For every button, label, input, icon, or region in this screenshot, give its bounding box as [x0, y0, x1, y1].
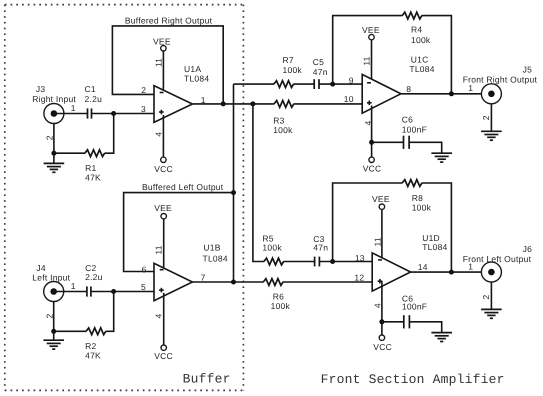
svg-text:C1: C1 [85, 84, 96, 94]
VCC terminal below U1D [373, 335, 392, 352]
node U1B output junction [231, 280, 236, 285]
svg-text:Buffered Right Output: Buffered Right Output [125, 15, 213, 25]
svg-text:47K: 47K [85, 351, 101, 361]
svg-text:2: 2 [141, 85, 146, 95]
svg-text:R4: R4 [411, 25, 422, 35]
svg-text:10: 10 [344, 94, 354, 104]
svg-text:4: 4 [153, 313, 163, 318]
wire U1C pin 4 to VCC through bypass node [371, 106, 373, 158]
resistor R4 100k [402, 12, 431, 45]
wire U1D pin 4 to VCC through bypass node [381, 281, 383, 335]
svg-text:47n: 47n [313, 67, 328, 77]
svg-text:47K: 47K [85, 172, 101, 182]
wire R5 to C3 [283, 261, 314, 263]
wire C6 to ground [409, 142, 441, 153]
wire J5 to ground [490, 104, 492, 131]
svg-text:VEE: VEE [362, 25, 380, 35]
VCC terminal below U1B [154, 345, 173, 361]
wire R2 up to node B [106, 292, 114, 332]
capacitor C5 47n [313, 57, 328, 89]
svg-text:5: 5 [141, 282, 146, 292]
resistor R1 47K [85, 150, 105, 183]
svg-text:VCC: VCC [363, 164, 382, 174]
svg-text:R3: R3 [273, 115, 284, 125]
capacitor C1 2.2u [85, 84, 103, 119]
wire VEE to U1B pin 11 [163, 219, 165, 268]
wire R6 to U1D pin 12 [283, 281, 372, 283]
wire J4 to C2 [54, 291, 87, 293]
svg-text:100k: 100k [412, 203, 432, 213]
connector J3 (Right Input) [32, 84, 76, 123]
svg-text:Front Section Amplifier: Front Section Amplifier [321, 372, 505, 387]
wire node A to U1A pin 3 [114, 113, 154, 115]
svg-text:8: 8 [406, 84, 411, 94]
wire U1B output row to U1D pin 12 [192, 281, 263, 283]
resistor R5 100k [262, 234, 283, 265]
wire U1D output to J6 [411, 271, 492, 273]
svg-text:6: 6 [142, 264, 147, 274]
svg-text:100k: 100k [273, 125, 293, 135]
wire J3 pin2 down to ground node [53, 124, 55, 164]
connector J5 (Front Right Output) [463, 65, 538, 104]
VCC terminal below U1C [363, 157, 382, 173]
wire J3 to C1 [54, 113, 87, 115]
capacitor C6 100nF (upper) [402, 115, 427, 149]
wire U1A pin 4 to VCC [162, 115, 164, 157]
wire VEE to U1A pin 11 [162, 51, 164, 90]
svg-text:11: 11 [372, 237, 382, 246]
svg-text:Buffered Left Output: Buffered Left Output [142, 182, 224, 192]
op-amp U1A TL084 [154, 64, 209, 122]
node U1A output junction [221, 101, 226, 106]
ground symbol (J6) [481, 309, 502, 318]
wire VEE to U1D pin 11 [381, 210, 383, 261]
svg-text:2: 2 [481, 115, 491, 120]
svg-text:TL084: TL084 [184, 73, 209, 83]
wire VEE to U1C pin 11 [371, 40, 373, 79]
node R3/R5 tap junction [250, 101, 255, 106]
R4 feedback wire [333, 16, 452, 94]
ground symbol (C6 upper) [431, 153, 452, 162]
resistor R3 100k [273, 101, 294, 136]
resistor R6 100k [263, 279, 290, 311]
svg-text:Front Right Output: Front Right Output [463, 75, 538, 85]
VEE terminal above U1B [154, 203, 172, 219]
svg-text:Left Input: Left Input [32, 272, 70, 282]
svg-text:J5: J5 [523, 65, 533, 75]
svg-text:R2: R2 [85, 341, 96, 351]
capacitor C6 100nF (lower) [402, 293, 427, 328]
wire ground node to R1 [54, 152, 85, 154]
svg-text:2: 2 [44, 313, 54, 318]
capacitor C3 47n [313, 234, 328, 266]
connector J6 (Front Left Output) [463, 244, 532, 282]
U1A feedback wire (Buffered Right Output) [112, 15, 223, 104]
svg-text:1: 1 [71, 103, 76, 113]
svg-text:7: 7 [201, 272, 206, 282]
capacitor C2 2.2u [85, 263, 103, 297]
svg-text:12: 12 [354, 272, 364, 282]
svg-text:Front Left Output: Front Left Output [463, 254, 532, 264]
svg-text:VCC: VCC [154, 164, 173, 174]
svg-text:VEE: VEE [153, 36, 171, 46]
resistor R8 100k [402, 180, 431, 213]
wire C5 to U1C pin 9 [319, 83, 362, 85]
svg-text:VCC: VCC [154, 351, 173, 361]
VCC terminal below U1A [154, 157, 173, 174]
VEE terminal above U1C [362, 25, 380, 40]
node bypass C6 junction (lower) [379, 319, 384, 324]
svg-text:TL084: TL084 [422, 242, 447, 252]
svg-text:47n: 47n [313, 242, 328, 252]
wire U1A output row to U1C pin 10 [192, 103, 274, 105]
ground symbol (C6 lower) [431, 333, 452, 342]
node A junction [111, 111, 116, 116]
ground symbol (J5) [481, 131, 502, 140]
ground node junction [51, 151, 56, 156]
svg-text:100k: 100k [283, 65, 303, 75]
resistor R7 100k [274, 55, 303, 87]
wire U1C output to J5 [401, 93, 492, 95]
wire R3 to U1C pin 10 [294, 103, 363, 105]
svg-text:TL084: TL084 [203, 254, 228, 264]
ground symbol (J4) [43, 340, 64, 349]
svg-text:R7: R7 [283, 55, 294, 65]
op-amp U1D TL084 [372, 233, 447, 291]
svg-text:C5: C5 [313, 57, 324, 67]
buffer section dotted border box [5, 5, 244, 391]
svg-text:14: 14 [418, 262, 428, 272]
svg-text:Buffer: Buffer [183, 371, 231, 386]
connector J4 (Left Input) [32, 263, 70, 302]
svg-text:J6: J6 [523, 244, 533, 254]
svg-text:TL084: TL084 [409, 64, 434, 74]
svg-text:VCC: VCC [373, 342, 392, 352]
svg-text:R8: R8 [412, 193, 423, 203]
svg-text:VEE: VEE [372, 194, 390, 204]
svg-text:J3: J3 [36, 84, 46, 94]
svg-text:100k: 100k [411, 35, 431, 45]
wire node B to U1B pin 5 [114, 291, 154, 293]
svg-text:2: 2 [481, 294, 491, 299]
svg-text:J4: J4 [36, 263, 46, 273]
wire J6 to ground [490, 282, 492, 309]
resistor R2 47K [85, 328, 106, 361]
svg-text:2.2u: 2.2u [85, 272, 103, 282]
svg-text:100k: 100k [262, 243, 282, 253]
wire R1 up to node A [105, 114, 114, 154]
node output/R8 junction [449, 270, 454, 275]
U1B feedback wire (Buffered Left Output) [124, 182, 234, 272]
wire J4 pin2 down to ground node [53, 302, 55, 341]
wire C1 to node A [92, 113, 114, 115]
vertical wire V1: R7 row down to buffered-left net [233, 84, 235, 282]
R8 feedback wire [333, 183, 452, 272]
op-amp U1C TL084 [362, 55, 435, 113]
svg-text:4: 4 [153, 132, 163, 137]
svg-text:9: 9 [349, 75, 354, 85]
svg-text:3: 3 [141, 104, 146, 114]
svg-text:VEE: VEE [154, 203, 172, 213]
VEE terminal above U1A [153, 36, 171, 51]
svg-text:1: 1 [468, 83, 473, 93]
svg-text:13: 13 [355, 253, 365, 263]
node bypass C6 junction [369, 140, 374, 145]
svg-text:100k: 100k [271, 301, 291, 311]
wire U1B pin 4 to VCC [163, 293, 165, 345]
svg-text:2: 2 [45, 135, 55, 140]
svg-text:U1B: U1B [203, 243, 220, 253]
vertical wire V2: right signal down to R5 [253, 104, 264, 262]
wire C3 to U1D pin 13 [320, 261, 373, 263]
svg-text:1: 1 [71, 281, 76, 291]
wire ground node to R2 [54, 330, 86, 332]
svg-text:11: 11 [153, 245, 163, 254]
ground symbol (J3) [44, 163, 65, 172]
wire VCC node to C6 [372, 141, 404, 143]
node buffered-left/R7 junction [231, 190, 236, 195]
svg-text:2.2u: 2.2u [85, 94, 103, 104]
node output/R4 junction [449, 91, 454, 96]
wire R7 to C5 [293, 83, 314, 85]
svg-text:100nF: 100nF [402, 125, 427, 135]
svg-text:11: 11 [362, 56, 372, 65]
wire C6 lower to ground [410, 322, 442, 333]
ground node junction (J4) [51, 329, 56, 334]
wire VCC node to C6 lower [382, 321, 404, 323]
node C3/R8 junction [330, 259, 335, 264]
svg-text:100nF: 100nF [402, 301, 427, 311]
node C5/R4 junction [330, 82, 335, 87]
VEE terminal above U1D [372, 194, 390, 209]
wire R7 row left segment [234, 83, 275, 85]
node B junction [111, 289, 116, 294]
wire C2 to node B [91, 291, 114, 293]
svg-text:C6: C6 [402, 115, 413, 125]
svg-text:11: 11 [153, 58, 163, 67]
op-amp U1B TL084 [154, 243, 228, 301]
